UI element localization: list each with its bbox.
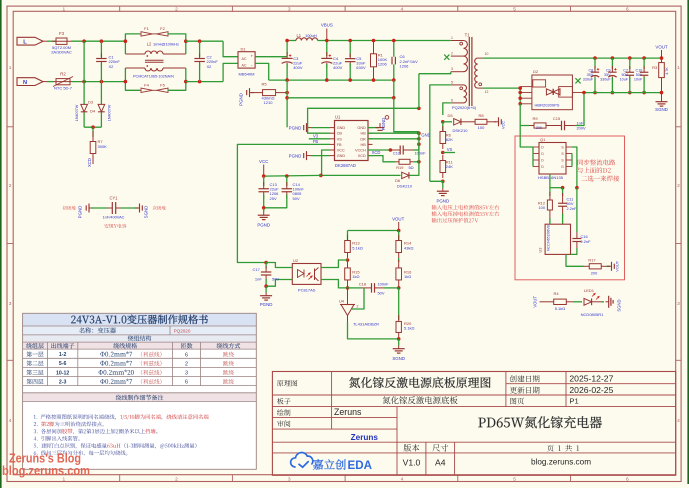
svg-text:1-2: 1-2: [59, 352, 67, 358]
svg-text:200: 200: [591, 270, 598, 275]
svg-text:300K: 300K: [98, 144, 108, 149]
svg-text:4: 4: [401, 476, 404, 482]
svg-text:MB540M: MB540M: [238, 71, 254, 76]
svg-text:50V: 50V: [621, 73, 628, 77]
svg-text:PQ2020: PQ2020: [174, 329, 191, 334]
svg-text:10-12: 10-12: [56, 370, 69, 376]
svg-text:R5: R5: [261, 82, 267, 87]
svg-text:PC817AS: PC817AS: [298, 288, 316, 293]
svg-text:PCMCAT1065-102NA/N: PCMCAT1065-102NA/N: [133, 74, 174, 78]
svg-text:2.2nF: 2.2nF: [581, 239, 592, 244]
svg-text:SGND: SGND: [655, 107, 668, 112]
svg-text:4: 4: [401, 6, 404, 12]
svg-text:2A/300VAC: 2A/300VAC: [51, 50, 72, 55]
svg-text:R4: R4: [553, 291, 559, 296]
svg-text:6: 6: [626, 476, 629, 482]
svg-text:3: 3: [185, 371, 188, 377]
svg-text:400V: 400V: [333, 65, 343, 70]
svg-text:VCCH: VCCH: [355, 149, 366, 153]
svg-text:10nF: 10nF: [634, 77, 643, 81]
svg-text:D1: D1: [241, 47, 247, 52]
svg-text:PGND: PGND: [78, 206, 83, 219]
svg-text:VOUT: VOUT: [392, 216, 405, 221]
svg-text:PGND: PGND: [436, 199, 449, 204]
svg-text:F1: F1: [144, 26, 149, 31]
svg-text:CB: CB: [337, 132, 343, 136]
svg-text:5: 5: [513, 476, 516, 482]
svg-text:3: 3: [288, 6, 291, 12]
svg-text:T1: T1: [465, 33, 471, 38]
svg-text:2025-12-27: 2025-12-27: [569, 373, 613, 383]
svg-text:C18: C18: [359, 281, 366, 286]
svg-text:200: 200: [536, 126, 542, 130]
svg-text:LED1: LED1: [584, 288, 595, 293]
svg-text:35V: 35V: [604, 73, 611, 77]
svg-text:1mH@100kHz: 1mH@100kHz: [153, 42, 179, 47]
svg-text:5.1kΩ: 5.1kΩ: [404, 326, 415, 331]
svg-text:50V: 50V: [272, 276, 279, 281]
svg-text:L: L: [23, 40, 27, 46]
svg-text:VCC: VCC: [259, 159, 268, 164]
svg-text:2: 2: [677, 183, 680, 189]
svg-text:DSK210: DSK210: [453, 128, 469, 133]
svg-text:3: 3: [288, 476, 291, 482]
svg-text:R19: R19: [396, 165, 403, 170]
svg-text:3: 3: [677, 301, 680, 307]
svg-text:C7: C7: [623, 69, 628, 73]
svg-text:C9: C9: [606, 69, 611, 73]
svg-text:HSBB16N135: HSBB16N135: [538, 175, 564, 180]
svg-text:1N4007W: 1N4007W: [108, 104, 112, 121]
svg-text:1: 1: [9, 65, 12, 71]
svg-text:TL431AIDBZR: TL431AIDBZR: [353, 321, 379, 326]
svg-text:330uF: 330uF: [583, 77, 594, 81]
svg-text:XCD: XCD: [87, 158, 92, 167]
svg-text:1N4007W: 1N4007W: [75, 104, 79, 121]
svg-text:1nF: 1nF: [255, 276, 262, 281]
svg-text:5: 5: [451, 80, 453, 84]
svg-text:D6: D6: [395, 178, 401, 183]
svg-text:blog.zeruns.com: blog.zeruns.com: [531, 458, 591, 467]
svg-text:4: 4: [9, 418, 12, 424]
svg-text:100nF: 100nF: [415, 151, 427, 156]
svg-text:U4: U4: [339, 298, 345, 303]
svg-text:R9: R9: [532, 116, 538, 121]
svg-text:100: 100: [478, 125, 485, 130]
svg-text:PQ2020(6+6): PQ2020(6+6): [452, 105, 477, 110]
svg-text:blog.zeruns.com: blog.zeruns.com: [2, 463, 90, 478]
svg-text:G: G: [561, 165, 564, 169]
svg-text:F2: F2: [160, 26, 165, 31]
svg-text:Zeruns: Zeruns: [351, 433, 379, 442]
svg-text:10uF: 10uF: [620, 77, 629, 81]
svg-text:50V: 50V: [293, 196, 300, 201]
svg-text:GND: GND: [357, 126, 366, 130]
svg-text:400V: 400V: [293, 65, 303, 70]
svg-text:630V: 630V: [356, 65, 366, 70]
svg-text:R2: R2: [60, 71, 66, 76]
svg-text:L2: L2: [147, 42, 152, 47]
svg-text:N: N: [23, 80, 27, 86]
svg-text:VOUT: VOUT: [533, 296, 538, 308]
svg-text:4.7K: 4.7K: [665, 67, 669, 75]
svg-text:82K: 82K: [446, 137, 453, 142]
svg-text:1kΩ: 1kΩ: [404, 274, 411, 279]
svg-text:R3: R3: [652, 65, 658, 70]
svg-text:AC: AC: [242, 64, 247, 68]
svg-text:VCC: VCC: [337, 149, 345, 153]
svg-text:43kΩ: 43kΩ: [404, 245, 413, 250]
svg-text:2: 2: [175, 476, 178, 482]
svg-text:NTC 5D-7: NTC 5D-7: [54, 86, 73, 91]
svg-text:2: 2: [175, 6, 178, 12]
svg-text:SGND: SGND: [144, 206, 149, 219]
svg-text:6: 6: [451, 98, 453, 102]
svg-text:1kΩ: 1kΩ: [352, 274, 359, 279]
svg-text:1206: 1206: [378, 62, 388, 67]
svg-text:10: 10: [485, 52, 489, 56]
svg-text:U1: U1: [335, 115, 341, 120]
svg-text:U2: U2: [293, 258, 299, 263]
svg-text:MCC34651306VB: MCC34651306VB: [547, 225, 551, 251]
svg-text:1210: 1210: [264, 100, 274, 105]
svg-text:SGND: SGND: [392, 356, 405, 361]
svg-text:VS: VS: [447, 147, 453, 152]
svg-text:50V: 50V: [378, 290, 385, 295]
svg-text:6: 6: [626, 6, 629, 12]
svg-text:C17: C17: [252, 267, 260, 272]
svg-text:V3: V3: [313, 133, 319, 138]
svg-text:12: 12: [485, 90, 489, 94]
svg-text:2: 2: [185, 362, 188, 368]
svg-text:50V: 50V: [636, 73, 643, 77]
svg-text:PGND: PGND: [289, 153, 302, 158]
svg-text:2: 2: [9, 183, 12, 189]
svg-text:D3: D3: [88, 99, 94, 104]
svg-text:24K: 24K: [446, 164, 453, 169]
svg-text:Zeruns: Zeruns: [334, 407, 362, 417]
svg-text:SGND: SGND: [617, 299, 622, 311]
svg-text:CY1: CY1: [110, 196, 119, 201]
svg-text:C10: C10: [636, 69, 643, 73]
svg-text:FB: FB: [313, 139, 319, 144]
svg-text:Q1: Q1: [540, 137, 546, 142]
svg-text:XCD: XCD: [372, 150, 381, 155]
svg-text:PGND: PGND: [289, 125, 302, 130]
svg-text:1: 1: [62, 6, 65, 12]
svg-text:2.2nF: 2.2nF: [567, 206, 578, 211]
svg-text:5-6: 5-6: [59, 361, 67, 367]
svg-text:A4: A4: [435, 457, 446, 467]
svg-text:GND: GND: [337, 154, 346, 158]
svg-text:HBR20200PS: HBR20200PS: [535, 102, 560, 107]
svg-text:DSK210: DSK210: [397, 183, 413, 188]
svg-text:V1.0: V1.0: [403, 457, 421, 467]
svg-text:X2: X2: [207, 64, 213, 69]
svg-text:VS: VS: [337, 137, 343, 141]
svg-text:4: 4: [677, 418, 680, 424]
svg-text:1206: 1206: [400, 63, 410, 68]
svg-text:L1: L1: [297, 33, 302, 38]
svg-text:DR: DR: [360, 137, 366, 141]
svg-text:VCC: VCC: [501, 121, 506, 129]
svg-text:R17: R17: [588, 257, 595, 262]
svg-text:F3: F3: [59, 31, 65, 36]
svg-text:X2: X2: [109, 64, 115, 69]
svg-text:XCD: XCD: [358, 154, 366, 158]
svg-text:1: 1: [677, 65, 680, 71]
svg-text:HB: HB: [361, 132, 367, 136]
svg-text:5.1kΩ: 5.1kΩ: [555, 306, 566, 311]
svg-text:C12: C12: [393, 151, 400, 156]
svg-text:P1: P1: [569, 397, 578, 406]
svg-text:1: 1: [451, 36, 453, 40]
svg-text:R8: R8: [478, 113, 484, 118]
svg-text:GND: GND: [337, 126, 346, 130]
svg-text:2: 2: [357, 305, 359, 309]
svg-text:NCD0805R1: NCD0805R1: [581, 312, 604, 317]
svg-text:6: 6: [185, 352, 188, 358]
svg-text:VOUT: VOUT: [655, 44, 668, 49]
svg-text:100nF: 100nF: [378, 281, 390, 286]
svg-text:C8: C8: [588, 69, 593, 73]
svg-text:HB: HB: [361, 143, 367, 147]
svg-text:F4: F4: [144, 83, 149, 88]
svg-text:EDA: EDA: [348, 459, 373, 472]
svg-text:5.1kΩ: 5.1kΩ: [352, 245, 363, 250]
svg-text:PGND: PGND: [239, 93, 244, 106]
svg-text:100: 100: [539, 205, 546, 210]
svg-text:5: 5: [513, 6, 516, 12]
svg-text:C15: C15: [553, 116, 561, 121]
svg-text:PGND: PGND: [381, 118, 386, 131]
svg-text:D4: D4: [90, 109, 96, 114]
svg-text:25V: 25V: [270, 196, 277, 201]
svg-text:D2: D2: [533, 69, 539, 74]
svg-text:PGND: PGND: [260, 302, 273, 307]
svg-text:F5: F5: [160, 83, 165, 88]
svg-text:PGND: PGND: [257, 223, 270, 228]
svg-text:330uF: 330uF: [600, 77, 611, 81]
svg-text:VOUT: VOUT: [614, 260, 619, 271]
svg-text:1nF/400VAC: 1nF/400VAC: [103, 215, 125, 220]
svg-text:U3: U3: [538, 248, 543, 253]
svg-text:2-3: 2-3: [59, 379, 67, 385]
svg-text:DK2687AD: DK2687AD: [335, 163, 356, 168]
svg-text:2: 2: [451, 52, 453, 56]
svg-text:100uH: 100uH: [305, 33, 317, 38]
svg-text:3: 3: [9, 301, 12, 307]
svg-text:AC: AC: [242, 57, 247, 61]
svg-text:D5: D5: [447, 113, 453, 118]
svg-text:6: 6: [185, 380, 188, 386]
svg-text:35V: 35V: [587, 73, 594, 77]
svg-text:FB: FB: [337, 143, 342, 147]
svg-text:3: 3: [451, 67, 453, 71]
svg-text:VBUS: VBUS: [321, 23, 333, 28]
svg-text:5Ω: 5Ω: [408, 165, 413, 170]
svg-text:2026-02-25: 2026-02-25: [569, 385, 613, 395]
